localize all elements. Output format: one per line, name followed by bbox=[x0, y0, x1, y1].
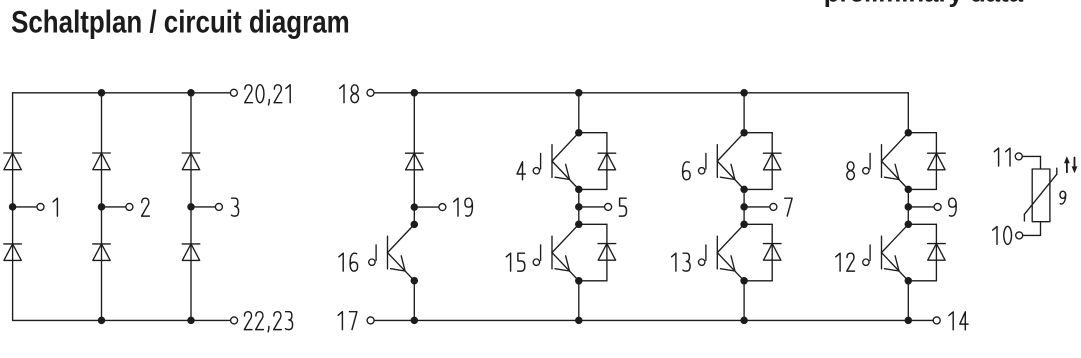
wire: rectifier top rail (DC+) bbox=[13, 92, 231, 94]
wire: rectifier leg 2 vertical bbox=[101, 93, 103, 321]
junction: T8 emitter bbox=[905, 186, 913, 194]
wire: inverter top rail (from terminal 18) bbox=[374, 92, 908, 94]
transistor T13 (lower IGBT) bbox=[716, 236, 718, 269]
transistor T12 (lower IGBT) bbox=[881, 236, 883, 269]
node: terminal 19 stub bbox=[414, 206, 439, 208]
label 18 bbox=[340, 85, 359, 103]
wire: phase leg 1 vertical (lower emitter to bottom rail) bbox=[578, 281, 580, 321]
wire: phase leg 2 vertical (top rail to upper collector) bbox=[743, 93, 745, 133]
label terminal 2 bbox=[142, 198, 150, 216]
label 9 bbox=[949, 198, 957, 216]
junction: T6 collector bbox=[740, 129, 748, 137]
label 12 (gate) bbox=[836, 253, 855, 271]
diode D (antiparallel to T4) bbox=[598, 152, 616, 154]
terminal circle 14 bbox=[933, 317, 940, 324]
junction: T4 emitter bbox=[575, 186, 583, 194]
label 16 (gate) bbox=[339, 253, 358, 271]
junction: phase leg 2 / top rail bbox=[740, 89, 748, 97]
wire: chopper leg vertical (top rail to T16 collector) bbox=[413, 93, 415, 225]
label 7 bbox=[785, 198, 792, 216]
node: phase output terminal 5 stub bbox=[579, 206, 605, 208]
label 14 bbox=[949, 312, 968, 330]
diode D (antiparallel to T15) bbox=[598, 243, 616, 245]
down arrow bbox=[1074, 158, 1076, 168]
terminal circle 22,23 (DC-) bbox=[231, 317, 238, 324]
label 6 (gate) bbox=[683, 162, 691, 180]
wire: phase leg 3 vertical (top rail to upper collector) bbox=[907, 93, 909, 133]
wire: rectifier leg 1 vertical bbox=[12, 93, 14, 321]
junction: chopper leg / bottom rail bbox=[411, 317, 419, 325]
wire: rectifier leg 3 vertical bbox=[190, 93, 192, 321]
terminal circle 10 bbox=[1016, 232, 1023, 239]
label theta (temperature) bbox=[1060, 191, 1066, 204]
label 5 bbox=[619, 198, 626, 216]
wire: phase leg 3 vertical (upper emitter to lower collector) bbox=[907, 189, 909, 224]
label 19 bbox=[454, 198, 473, 216]
thermistor R1 body bbox=[1032, 169, 1050, 222]
diode D3 (upper, leg 2) bbox=[93, 152, 111, 154]
label 13 (gate) bbox=[672, 253, 691, 271]
terminal circle 7 bbox=[770, 203, 777, 210]
label 11 bbox=[994, 148, 1010, 166]
junction: T13 emitter bbox=[740, 277, 748, 285]
terminal circle 18 bbox=[367, 89, 374, 96]
junction: phase leg 3 / bottom rail bbox=[905, 317, 913, 325]
junction: leg to top rail bbox=[187, 89, 195, 97]
wire: thermistor top lead bbox=[1022, 155, 1040, 157]
diode D4 (lower, leg 2) bbox=[93, 243, 111, 245]
thermistor R1 diagonal stroke bbox=[1023, 214, 1025, 221]
wire: rectifier bottom rail (DC-) bbox=[13, 319, 231, 321]
junction: T4 collector bbox=[575, 129, 583, 137]
terminal circle 1 bbox=[37, 203, 44, 210]
wire: freewheel diode branch (upper, leg 1) bbox=[579, 132, 607, 134]
node: AC terminal 2 stub bbox=[102, 206, 126, 208]
junction: leg to top rail bbox=[98, 89, 106, 97]
node: phase output terminal 9 stub bbox=[908, 206, 934, 208]
junction: T15 emitter bbox=[575, 277, 583, 285]
diode D2 (lower, leg 1) bbox=[4, 243, 22, 245]
junction: T13 collector bbox=[740, 221, 748, 229]
wire: phase leg 2 vertical (lower emitter to bottom rail) bbox=[743, 281, 745, 321]
label 10 bbox=[993, 226, 1012, 244]
svg-text:preliminary data: preliminary data bbox=[824, 0, 1024, 8]
junction: phase leg 2 / bottom rail bbox=[740, 317, 748, 325]
wire: freewheel diode branch (upper, leg 3) bbox=[908, 132, 936, 134]
node: AC terminal 1 stub bbox=[13, 206, 37, 208]
wire: freewheel diode branch (upper, leg 2) bbox=[744, 132, 772, 134]
diode D (antiparallel to T12) bbox=[928, 243, 946, 245]
junction: T16 emitter bbox=[411, 277, 419, 285]
terminal circle 11 bbox=[1015, 153, 1022, 160]
label terminal 1 bbox=[53, 198, 57, 216]
up arrow bbox=[1066, 162, 1068, 172]
wire: freewheel diode branch (lower, leg 1) bbox=[579, 223, 607, 225]
wire: phase leg 1 vertical (top rail to upper collector) bbox=[578, 93, 580, 133]
transistor T16 (brake chopper IGBT) bbox=[387, 236, 389, 269]
label 17 bbox=[338, 312, 357, 330]
diode D (antiparallel to T8) bbox=[928, 152, 946, 154]
diode D1 (upper, leg 1) bbox=[4, 152, 22, 154]
junction: T12 emitter bbox=[905, 277, 913, 285]
terminal circle 5 bbox=[605, 203, 612, 210]
diode D (antiparallel to T13) bbox=[763, 243, 781, 245]
diode D7 (chopper, in line) bbox=[406, 152, 424, 154]
terminal circle 20,21 (DC+) bbox=[230, 89, 237, 96]
transistor T8 (upper IGBT) bbox=[881, 145, 883, 178]
wire: freewheel diode branch (lower, leg 3) bbox=[908, 223, 936, 225]
wire: chopper leg vertical (T16 emitter to bottom rail) bbox=[413, 281, 415, 321]
diode D6 (lower, leg 3) bbox=[182, 243, 200, 245]
junction: leg to bottom rail bbox=[98, 317, 106, 325]
svg-text:Schaltplan / circuit diagram: Schaltplan / circuit diagram bbox=[11, 3, 350, 39]
junction: T8 collector bbox=[905, 129, 913, 137]
junction: T6 emitter bbox=[740, 186, 748, 194]
junction: phase leg 1 / bottom rail bbox=[575, 317, 583, 325]
wire: phase leg 1 vertical (upper emitter to lower collector) bbox=[578, 189, 580, 224]
wire: phase leg 3 vertical (lower emitter to bottom rail) bbox=[907, 281, 909, 321]
wire: thermistor bottom lead bbox=[1040, 222, 1042, 236]
diode D5 (upper, leg 3) bbox=[182, 152, 200, 154]
wire: phase leg 2 vertical (upper emitter to lower collector) bbox=[743, 189, 745, 224]
label terminal 3 bbox=[232, 198, 239, 216]
terminal circle 17 bbox=[367, 317, 374, 324]
junction: T16 collector bbox=[411, 221, 419, 229]
label 8 (gate) bbox=[847, 162, 855, 180]
transistor T15 (lower IGBT) bbox=[551, 236, 553, 269]
label 4 (gate) bbox=[517, 162, 525, 180]
junction: T12 collector bbox=[905, 221, 913, 229]
transistor T4 (upper IGBT) bbox=[551, 145, 553, 178]
node: AC terminal 3 stub bbox=[191, 206, 215, 208]
junction: leg to bottom rail bbox=[187, 317, 195, 325]
terminal circle 3 bbox=[215, 203, 222, 210]
wire: freewheel diode branch (lower, leg 2) bbox=[744, 223, 772, 225]
label 20,21 bbox=[245, 85, 291, 105]
terminal circle 2 bbox=[126, 203, 133, 210]
transistor T6 (upper IGBT) bbox=[716, 145, 718, 178]
junction: T15 collector bbox=[575, 221, 583, 229]
diode D (antiparallel to T6) bbox=[763, 152, 781, 154]
terminal circle 19 bbox=[439, 204, 446, 211]
node: phase output terminal 7 stub bbox=[744, 206, 770, 208]
wire: inverter bottom rail (terminal 17 to 14) bbox=[374, 319, 933, 321]
junction: chopper leg / top rail bbox=[411, 89, 419, 97]
label 22,23 bbox=[244, 312, 292, 332]
label 15 (gate) bbox=[506, 253, 525, 271]
junction: phase leg 1 / top rail bbox=[575, 89, 583, 97]
terminal circle 9 bbox=[934, 203, 941, 210]
